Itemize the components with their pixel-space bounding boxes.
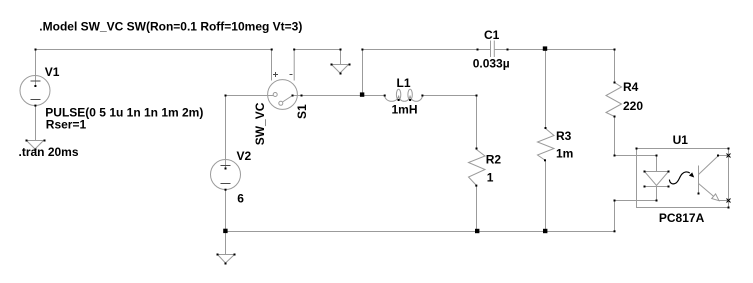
junction node A (switch out): [360, 92, 364, 96]
wire R3 bottom: [545, 161, 547, 232]
endpoint dot V1 top corner: [35, 49, 37, 51]
endpoint dot collector corner: [717, 155, 719, 157]
wire switch right to node: [293, 95, 363, 97]
endpoint dots box corners: [728, 148, 730, 150]
svg-text:220: 220: [623, 99, 643, 113]
junction node E (R3 bottom): [543, 229, 547, 233]
wire top rail to C1: [363, 49, 491, 51]
svg-text:.Model SW_VC SW(Ron=0.1 Roff=1: .Model SW_VC SW(Ron=0.1 Roff=10meg Vt=3): [39, 19, 302, 33]
switch S1: [268, 72, 298, 109]
pin x mark bottom right: [727, 199, 731, 203]
wire V1 top stub: [35, 50, 37, 87]
svg-text:R3: R3: [556, 129, 572, 143]
endpoint dots ground sw: [331, 64, 333, 66]
wire top segment to ground (switch minus to gnd): [294, 49, 340, 51]
svg-text:0.033µ: 0.033µ: [473, 56, 510, 70]
endpoint dot R2 corner: [476, 95, 478, 97]
ground below V1: [27, 141, 44, 150]
endpoint dots switch control tops: [271, 49, 273, 51]
endpoint dots resistor lead ends: [475, 185, 477, 187]
svg-text:1mH: 1mH: [392, 103, 418, 117]
wire LED cathode out to bottom rail: [615, 187, 657, 232]
endpoint dot bottom rail right corner: [614, 230, 616, 232]
resistor R2: [469, 150, 486, 186]
svg-text:6: 6: [237, 191, 244, 205]
endpoint dot LED cathode corner: [656, 200, 658, 202]
wire R4 to opto LED: [615, 117, 657, 156]
junction node D (R2 bottom): [475, 229, 479, 233]
junction node B (C1/R3 top): [543, 46, 547, 50]
wire C1 to R4 corner: [495, 49, 615, 51]
wire R2 bottom: [476, 186, 478, 232]
junction node C (V2 gnd): [223, 229, 227, 233]
endpoint dot R3 top: [545, 127, 547, 129]
opto phototransistor: [699, 156, 729, 201]
wire R4 top corner: [614, 50, 616, 83]
endpoint dots C1 leads: [477, 49, 479, 51]
endpoint dot switch arm: [292, 95, 294, 97]
endpoint dots led triangle: [644, 171, 646, 173]
endpoint dots ground V1: [26, 140, 28, 142]
light arrow head: [689, 172, 694, 177]
wire node to L1: [363, 95, 386, 97]
endpoint dots L1 leads: [384, 95, 386, 97]
endpoint dot lower led corner: [614, 200, 616, 202]
voltage source V1: [20, 76, 50, 106]
inductor L1: [385, 89, 423, 101]
svg-text:Rser=1: Rser=1: [46, 118, 87, 132]
endpoint dot node A corner: [361, 49, 363, 51]
svg-text:L1: L1: [397, 76, 411, 90]
endpoint dot transistor base: [698, 193, 700, 195]
wire switch control plus drop: [271, 50, 273, 81]
wire V2 bottom: [225, 190, 227, 232]
endpoint dot gnd2 corner: [340, 49, 342, 51]
svg-text:PC817A: PC817A: [659, 211, 705, 225]
pin x mark top right: [727, 154, 731, 158]
svg-text:SW_VC: SW_VC: [253, 102, 267, 145]
opto U1 box: [637, 149, 729, 208]
light coupling arrow: [669, 172, 689, 184]
svg-text:S1: S1: [295, 104, 309, 119]
endpoint dot box corner: [636, 148, 638, 150]
ground below V2: [218, 232, 235, 264]
svg-text:C1: C1: [484, 28, 500, 42]
wire V1 bottom: [35, 106, 37, 141]
wire node up to top rail: [362, 50, 364, 96]
resistor R4: [606, 83, 622, 117]
voltage source V2: [211, 160, 241, 190]
wire L1 to R2 corner: [422, 96, 476, 150]
wire top rail left (V1 to switch control +): [36, 49, 272, 51]
svg-text:R4: R4: [623, 80, 639, 94]
svg-text:.tran 20ms: .tran 20ms: [19, 145, 79, 159]
endpoint dots ground V2: [217, 254, 219, 256]
endpoint dot R2 top: [476, 148, 478, 150]
endpoint dot R4 top corner: [614, 49, 616, 51]
endpoint dots source pins: [34, 85, 36, 87]
wire bottom rail: [226, 231, 615, 233]
wire junction down to R3: [545, 50, 547, 129]
ground near switch: [332, 50, 349, 74]
endpoint dot led wire: [656, 155, 658, 157]
capacitor C1: [491, 41, 495, 58]
endpoint dot R4 corner to opto: [614, 155, 616, 157]
wire switch control minus drop: [293, 50, 295, 81]
opto LED drop wire: [656, 156, 658, 172]
svg-text:V2: V2: [237, 149, 252, 163]
svg-text:V1: V1: [45, 65, 60, 79]
endpoint dot V2 wire corner: [225, 95, 227, 97]
resistor R3: [538, 129, 555, 161]
opto LED diode: [645, 172, 669, 187]
svg-text:U1: U1: [673, 133, 689, 147]
svg-text:1m: 1m: [556, 147, 573, 161]
svg-text:R2: R2: [486, 152, 502, 166]
wire V2 to switch left: [226, 96, 274, 169]
svg-text:1: 1: [487, 170, 494, 184]
